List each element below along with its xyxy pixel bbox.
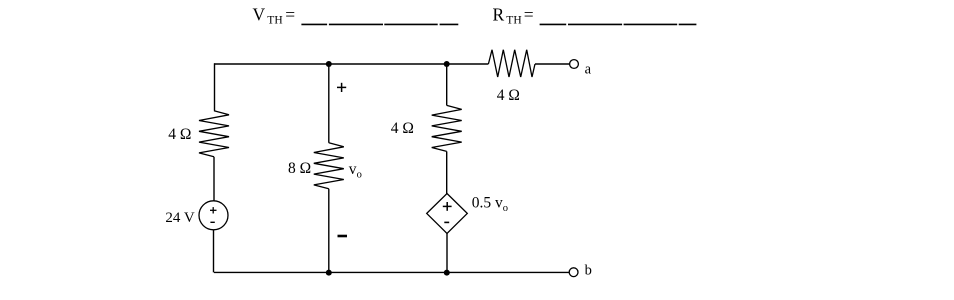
value label 0.5 vo [472,194,508,213]
svg-text:=: = [524,5,534,25]
svg-text:b: b [585,263,592,279]
junction dot bottom right node [444,270,450,276]
svg-text:4 Ω: 4 Ω [497,87,520,104]
wire: third branch below dependent source [446,234,448,273]
wire: third branch between resistor and dependent source [446,151,448,193]
polarity plus for vo [337,83,346,92]
wire: left branch between resistor and 24V source [213,157,215,201]
svg-text:a: a [585,62,592,78]
wire: middle branch upper segment [328,64,330,143]
label V_TH = [253,5,296,27]
wire: third branch upper segment [446,64,448,105]
wire: series resistor to terminal a [535,63,570,65]
junction dot top middle node [326,61,332,67]
minus sign inside 24V source [210,221,214,223]
wire: left branch upper segment [214,63,216,111]
dependent source diamond 0.5vo [427,194,468,234]
resistor 4Ω third branch [432,105,462,151]
resistor 4Ω horizontal series to terminal a [488,50,535,77]
svg-text:o: o [503,203,508,214]
plus sign inside 24V source [210,207,217,213]
wire: top rail from left corner to series resistor [214,63,488,65]
svg-text:v: v [349,161,357,178]
svg-text:R: R [493,5,505,25]
resistor 8Ω middle branch [314,143,344,189]
junction dot bottom middle node [326,270,332,276]
svg-text:=: = [285,5,295,25]
svg-text:V: V [253,5,266,25]
svg-text:4 Ω: 4 Ω [391,120,414,137]
label R_TH = [493,5,534,27]
svg-text:o: o [357,170,362,181]
svg-text:8 Ω: 8 Ω [288,160,311,177]
node label vo [349,161,362,180]
terminal a open circle [570,60,579,69]
wire: left branch below source [213,230,215,273]
blank answer line for V_TH [301,23,458,25]
svg-text:24 V: 24 V [165,210,194,226]
svg-text:TH: TH [267,15,282,27]
polarity minus for vo [338,235,348,238]
blank answer line for R_TH [540,23,697,25]
svg-text:TH: TH [506,15,521,27]
wire: middle branch lower segment [328,189,330,273]
wire: bottom rail to terminal b [214,271,569,273]
junction dot top right node [444,61,450,67]
plus sign inside dependent source [443,202,452,211]
resistor 4Ω left branch [199,111,229,157]
terminal b open circle [569,268,578,277]
svg-text:4 Ω: 4 Ω [168,126,191,143]
voltage source 24V circle [199,201,228,230]
svg-text:0.5 v: 0.5 v [472,194,503,211]
minus sign inside dependent source [444,221,449,223]
